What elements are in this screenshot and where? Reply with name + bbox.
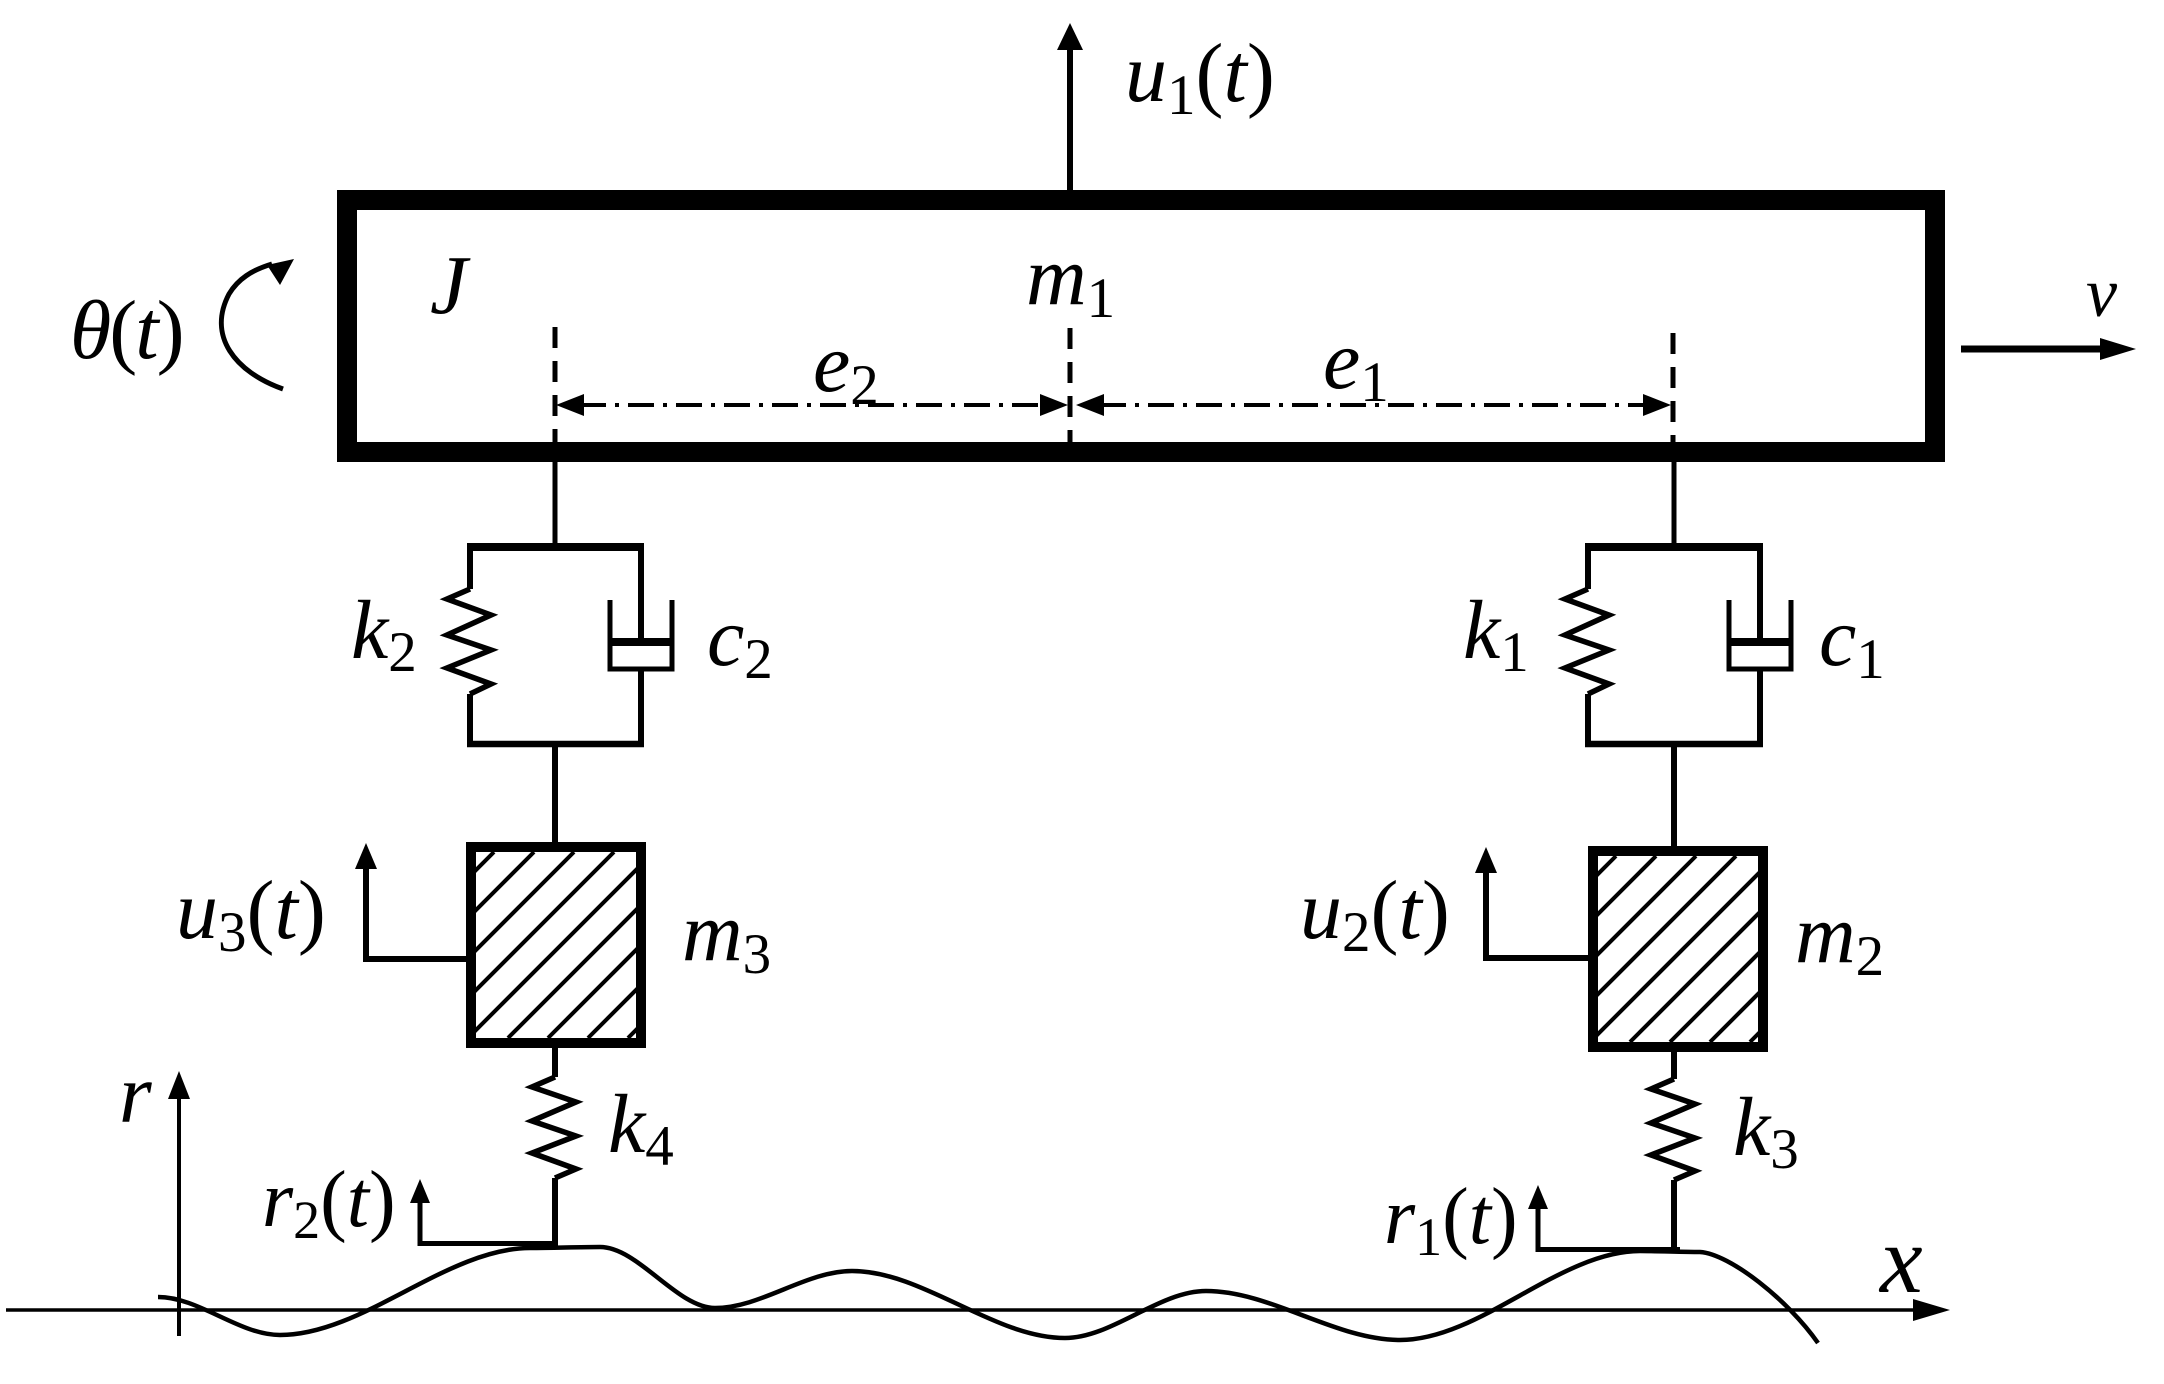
damper c2 piston plate bbox=[612, 638, 670, 646]
spring k1 bbox=[1565, 589, 1609, 694]
label c1 bbox=[1819, 591, 1885, 691]
label k4 bbox=[608, 1078, 674, 1178]
spring k3 bbox=[1651, 1079, 1695, 1180]
right suspension frame bottom bar bbox=[1585, 741, 1763, 748]
velocity arrow v bbox=[1961, 338, 2136, 360]
svg-text:u2​(t): u2​(t) bbox=[1300, 864, 1450, 964]
label e2 bbox=[813, 317, 879, 417]
svg-text:θ(t): θ(t) bbox=[70, 284, 183, 377]
label J bbox=[430, 239, 471, 332]
label theta(t) bbox=[70, 284, 183, 377]
wire: mass m2 to spring k3 bbox=[1671, 1047, 1677, 1079]
svg-text:k3​: k3​ bbox=[1733, 1081, 1799, 1181]
left suspension frame bottom bar bbox=[467, 741, 644, 748]
label r bbox=[119, 1048, 152, 1141]
label r1(t) bbox=[1384, 1173, 1518, 1267]
wire: damper c2 to bottom bar bbox=[638, 669, 644, 744]
label u2(t) bbox=[1300, 864, 1450, 964]
svg-text:k4​: k4​ bbox=[608, 1078, 674, 1178]
force arrow u1(t) on beam top bbox=[1057, 23, 1083, 190]
arrow r1(t) road input right bbox=[1528, 1185, 1680, 1252]
dimension line e1 bbox=[1076, 394, 1671, 416]
damper c2 piston rod bbox=[638, 547, 644, 641]
label x bbox=[1878, 1206, 1923, 1313]
svg-text:c2​: c2​ bbox=[707, 591, 773, 691]
dashed centre line right mount bbox=[1671, 333, 1676, 442]
dimension line e2 bbox=[556, 394, 1068, 416]
road profile curve bbox=[158, 1247, 1818, 1343]
label m1 bbox=[1026, 230, 1115, 330]
label e1 bbox=[1323, 314, 1389, 414]
svg-text:k2​: k2​ bbox=[351, 584, 417, 684]
svg-text:u1​(t): u1​(t) bbox=[1125, 27, 1275, 127]
svg-text:m3​: m3​ bbox=[682, 886, 771, 986]
wire: damper c1 to bottom bar bbox=[1757, 669, 1763, 744]
rotation arrow theta(t) bbox=[221, 259, 294, 389]
wire: mass m3 to spring k4 bbox=[552, 1043, 558, 1077]
force arrow u3(t) bbox=[355, 843, 471, 962]
wire: top bar to spring k2 bbox=[467, 543, 473, 589]
wire: right suspension to mass m2 bbox=[1671, 747, 1677, 849]
wire: left suspension to mass m3 bbox=[552, 747, 558, 845]
spring k4 bbox=[532, 1077, 576, 1178]
dashed centre line centroid m1 bbox=[1068, 328, 1073, 442]
svg-text:c1​: c1​ bbox=[1819, 591, 1885, 691]
r axis bbox=[168, 1071, 190, 1336]
wire: beam to right suspension bbox=[1672, 462, 1677, 545]
label m3 bbox=[682, 886, 771, 986]
wire: beam to left suspension bbox=[553, 462, 558, 545]
damper c1 piston rod bbox=[1757, 547, 1763, 641]
svg-text:m2​: m2​ bbox=[1795, 888, 1884, 988]
label v bbox=[2086, 255, 2118, 332]
damper c1 piston plate bbox=[1731, 638, 1789, 646]
label k1 bbox=[1463, 584, 1529, 684]
label k2 bbox=[351, 584, 417, 684]
wire: spring k3 to road bbox=[1671, 1180, 1677, 1252]
wire: spring k4 to road bbox=[552, 1178, 558, 1247]
left suspension frame top bar bbox=[467, 543, 644, 551]
svg-text:k1​: k1​ bbox=[1463, 584, 1529, 684]
svg-text:r2​(t): r2​(t) bbox=[262, 1156, 396, 1250]
x axis bbox=[6, 1299, 1950, 1321]
label m2 bbox=[1795, 888, 1884, 988]
beam rigid body (mass m1, inertia J) bbox=[347, 200, 1935, 452]
arrow r2(t) road input left bbox=[410, 1179, 557, 1246]
damper c2 cylinder cup bbox=[610, 600, 672, 669]
force arrow u2(t) bbox=[1475, 847, 1593, 961]
label k3 bbox=[1733, 1081, 1799, 1181]
label u3(t) bbox=[176, 864, 326, 964]
svg-text:u3​(t): u3​(t) bbox=[176, 864, 326, 964]
svg-text:r: r bbox=[119, 1048, 152, 1141]
right suspension frame top bar bbox=[1585, 543, 1763, 551]
label c2 bbox=[707, 591, 773, 691]
wire: top bar to spring k1 bbox=[1585, 543, 1591, 589]
label u1(t) bbox=[1125, 27, 1275, 127]
svg-text:v: v bbox=[2086, 255, 2118, 332]
wire: spring k1 to bottom bar bbox=[1585, 694, 1591, 747]
label r2(t) bbox=[262, 1156, 396, 1250]
spring k2 bbox=[447, 589, 491, 694]
svg-text:J: J bbox=[430, 239, 471, 332]
svg-text:x: x bbox=[1878, 1206, 1923, 1313]
dashed centre line left mount bbox=[553, 327, 558, 442]
wire: spring k2 to bottom bar bbox=[467, 694, 473, 747]
damper c1 cylinder cup bbox=[1729, 600, 1791, 669]
svg-text:r1​(t): r1​(t) bbox=[1384, 1173, 1518, 1267]
